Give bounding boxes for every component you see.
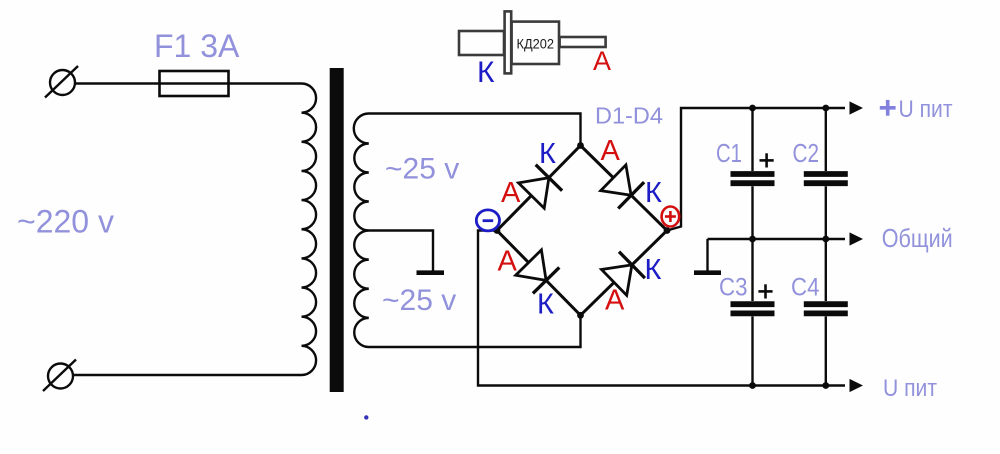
svg-text:F1 3A: F1 3A [154, 28, 240, 64]
svg-text:~25 v: ~25 v [382, 284, 456, 317]
svg-text:U пит: U пит [899, 96, 953, 123]
svg-text:D1-D4: D1-D4 [595, 102, 663, 128]
svg-text:К: К [537, 289, 554, 321]
svg-text:А: А [593, 46, 611, 76]
svg-text:Общий: Общий [882, 223, 953, 253]
svg-text:~220 v: ~220 v [17, 204, 114, 240]
svg-text:А: А [601, 135, 621, 167]
svg-text:КД202: КД202 [517, 36, 555, 52]
svg-text:А: А [501, 177, 521, 209]
svg-text:C2: C2 [793, 138, 820, 168]
svg-text:А: А [498, 246, 518, 278]
svg-text:C1: C1 [716, 138, 742, 168]
svg-text:К: К [645, 177, 662, 209]
svg-text:C4: C4 [791, 273, 820, 301]
svg-text:C3: C3 [719, 273, 748, 301]
svg-text:U пит: U пит [883, 375, 937, 402]
svg-text:К: К [539, 138, 556, 170]
svg-text:~25 v: ~25 v [385, 153, 459, 186]
svg-text:А: А [605, 285, 625, 317]
svg-text:К: К [477, 56, 495, 89]
svg-text:К: К [645, 254, 662, 286]
